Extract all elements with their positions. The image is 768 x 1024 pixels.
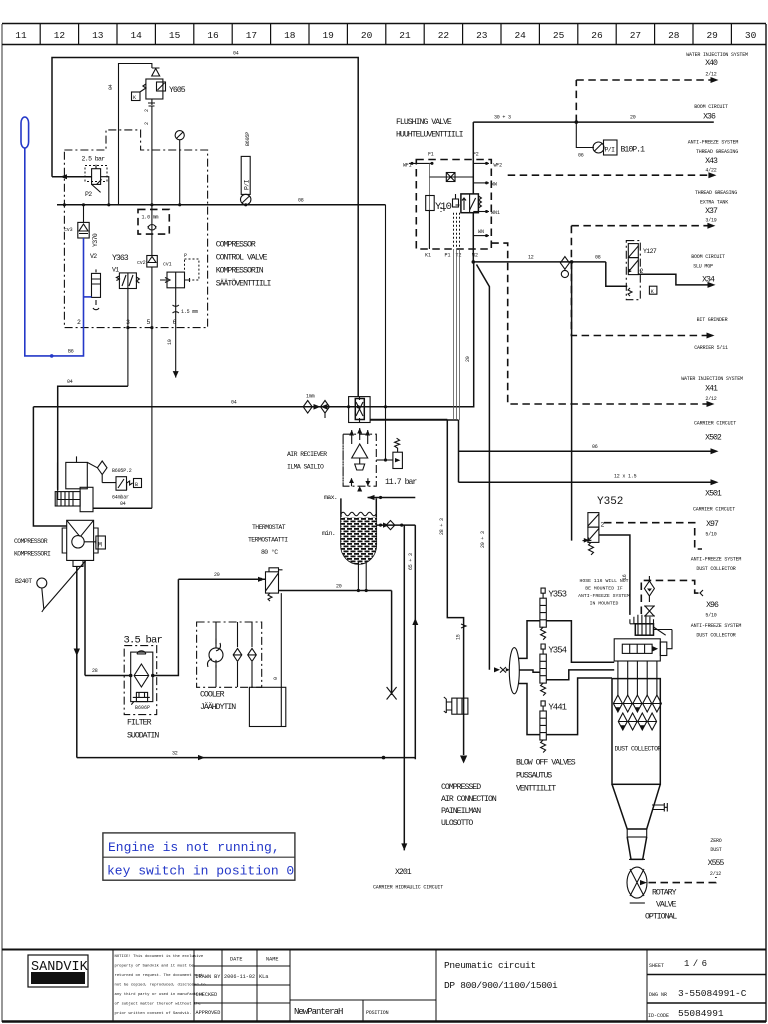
svg-text:B606P: B606P <box>135 705 150 711</box>
label boom circuit slu X34 <box>691 254 725 285</box>
svg-text:ANTI-FREEZE SYSTEM: ANTI-FREEZE SYSTEM <box>578 593 630 599</box>
wire 04 branch <box>58 386 128 490</box>
svg-text:CARRIER HIDRAULIC CIRCUIT: CARRIER HIDRAULIC CIRCUIT <box>373 885 443 891</box>
capped branch with X <box>391 591 393 695</box>
svg-text:COMPRESSOR: COMPRESSOR <box>216 241 256 250</box>
svg-text:SUODATIN: SUODATIN <box>127 732 159 741</box>
svg-text:VENTTIILIT: VENTTIILIT <box>516 785 556 794</box>
check valve cv2 <box>137 205 157 508</box>
svg-text:DUST: DUST <box>710 847 721 853</box>
svg-text:17: 17 <box>246 30 257 41</box>
thermostat out line 20 <box>279 590 392 592</box>
blue branch to V2 <box>84 296 92 298</box>
label carrier circuit X502 <box>694 421 736 443</box>
svg-text:X37: X37 <box>705 207 718 216</box>
svg-text:5/10: 5/10 <box>705 613 716 619</box>
svg-text:KOMPRESSORI: KOMPRESSORI <box>14 551 51 558</box>
svg-text:ULOSOTTO: ULOSOTTO <box>441 819 473 828</box>
blue wire down <box>25 148 84 356</box>
blue junction dot <box>50 354 54 358</box>
svg-text:any third party or used in man: any third party or used in manufacture <box>115 992 204 997</box>
wire drop to Y127 <box>606 262 628 286</box>
svg-text:DP 800/900/1100/1500i: DP 800/900/1100/1500i <box>444 980 558 991</box>
svg-text:Pneumatic circuit: Pneumatic circuit <box>444 960 536 971</box>
svg-text:28: 28 <box>92 668 98 674</box>
pilot box C2 <box>649 286 657 294</box>
filter 3.5bar <box>124 635 163 741</box>
riser to X502/X501 <box>458 420 460 482</box>
inline check 1mm orifice <box>303 394 329 419</box>
orifice 1.0 mm <box>138 209 169 234</box>
svg-text:CARRIER CIRCUIT: CARRIER CIRCUIT <box>693 507 735 513</box>
svg-text:X34: X34 <box>702 276 715 285</box>
svg-text:THREAD GREASING: THREAD GREASING <box>696 149 738 155</box>
inline lubricator on 12 line <box>560 257 569 278</box>
svg-text:30: 30 <box>745 30 757 41</box>
label compressor control valve <box>216 241 272 289</box>
Y10 left port line <box>409 162 432 164</box>
pressure transducer B605P <box>241 132 251 205</box>
compressor control valve dash-dot box <box>64 130 207 328</box>
page border left <box>1 24 3 1022</box>
svg-text:2/12: 2/12 <box>710 871 721 877</box>
air receiver inlet valve <box>349 397 371 423</box>
svg-text:DUST COLLECTOR: DUST COLLECTOR <box>615 746 662 753</box>
svg-text:23: 23 <box>476 30 488 41</box>
anti-freeze check diamond <box>644 576 655 616</box>
svg-text:property of Sandvik and it mus: property of Sandvik and it must be <box>115 964 195 969</box>
dashed W2 out to X41 <box>491 243 713 404</box>
svg-text:of subject matter thereof with: of subject matter thereof without the <box>115 1002 202 1007</box>
tank drain pipes <box>357 562 359 591</box>
svg-text:06: 06 <box>578 153 584 159</box>
svg-text:F1: F1 <box>428 152 434 158</box>
svg-text:WW: WW <box>491 182 497 188</box>
label thermostat <box>248 524 288 556</box>
svg-text:THERMOSTAT: THERMOSTAT <box>252 524 286 531</box>
svg-text:1.5 mm: 1.5 mm <box>181 309 198 315</box>
label water injection system X40 <box>686 52 748 78</box>
svg-text:04: 04 <box>67 379 73 385</box>
svg-text:64mbar: 64mbar <box>112 495 129 501</box>
sandvik logo box <box>28 955 88 987</box>
svg-text:B605P: B605P <box>245 132 251 146</box>
thermostat feed line 20 <box>178 578 265 580</box>
svg-text:min.: min. <box>322 530 335 537</box>
svg-text:32: 32 <box>172 751 178 757</box>
main line 12 to boom <box>473 261 606 263</box>
svg-text:Y10: Y10 <box>435 201 452 213</box>
svg-text:WATER INJECTION SYSTEM: WATER INJECTION SYSTEM <box>681 376 743 382</box>
svg-text:15: 15 <box>456 634 462 640</box>
svg-text:2006-11-02: 2006-11-02 <box>224 974 255 980</box>
svg-text:X501: X501 <box>705 490 722 499</box>
svg-text:ZERO: ZERO <box>710 838 721 844</box>
dashed corner X37 to carrier <box>571 226 712 336</box>
box port numbers <box>77 319 177 326</box>
svg-text:DUST COLLECTOR: DUST COLLECTOR <box>696 633 735 639</box>
Y10 valve body <box>461 194 482 213</box>
svg-text:X41: X41 <box>705 385 718 394</box>
svg-text:X502: X502 <box>705 434 722 443</box>
wire top box horizontal 04 <box>52 58 358 397</box>
unloader hatched cylinder <box>55 487 93 511</box>
svg-text:KLa: KLa <box>259 974 268 980</box>
thermostat <box>258 568 283 601</box>
svg-text:X43: X43 <box>705 157 718 166</box>
dashed riser to X40 <box>575 80 577 122</box>
svg-text:2: 2 <box>144 109 150 112</box>
wire unloader to cv2 riser 04 <box>93 507 152 509</box>
svg-text:Y127: Y127 <box>643 248 657 255</box>
svg-text:04: 04 <box>120 501 126 507</box>
svg-text:06: 06 <box>592 444 598 450</box>
svg-text:POSITION: POSITION <box>366 1010 389 1016</box>
svg-text:NAME: NAME <box>266 957 278 963</box>
svg-text:BE MOUNTED IF: BE MOUNTED IF <box>585 586 623 592</box>
svg-text:3/19: 3/19 <box>705 218 716 224</box>
svg-text:HOSE 116 WILL NOT: HOSE 116 WILL NOT <box>580 578 629 584</box>
svg-text:JÄÄHDYTIN: JÄÄHDYTIN <box>200 702 236 712</box>
svg-text:ANTI-FREEZE SYSTEM: ANTI-FREEZE SYSTEM <box>691 623 742 629</box>
svg-text:COMPRESSOR: COMPRESSOR <box>14 538 48 545</box>
svg-text:B6: B6 <box>68 349 74 355</box>
compressor block <box>62 520 105 566</box>
svg-text:BLOW OFF VALVES: BLOW OFF VALVES <box>516 759 576 768</box>
svg-text:FLUSHING VALVE: FLUSHING VALVE <box>396 118 452 127</box>
svg-text:NOTICE! This document is the e: NOTICE! This document is the exclusive <box>115 954 204 959</box>
dust collector funnel <box>612 784 660 859</box>
svg-text:20: 20 <box>361 30 373 41</box>
svg-text:KOMPRESSORIN: KOMPRESSORIN <box>216 267 264 276</box>
solenoid valve Y605 <box>140 68 186 205</box>
svg-text:WN1: WN1 <box>491 210 500 216</box>
notice text block <box>112 950 114 1022</box>
blue key symbol <box>21 117 29 148</box>
svg-text:3.5 bar: 3.5 bar <box>124 635 163 647</box>
svg-text:CARRIER 5/11: CARRIER 5/11 <box>694 345 728 351</box>
svg-text:WN: WN <box>478 229 484 235</box>
wire P2 out down <box>101 177 109 205</box>
svg-text:P: P <box>184 253 187 259</box>
svg-text:P/I: P/I <box>605 147 616 154</box>
svg-text:DATE: DATE <box>230 957 242 963</box>
svg-text:20 + 3: 20 + 3 <box>480 531 486 548</box>
cooler dashdot box <box>197 622 262 687</box>
line X36 30+3 <box>473 121 714 123</box>
pressure regulator P2 <box>82 156 108 199</box>
blow off valve Y353 <box>519 588 615 662</box>
wire blowdown to X201 <box>403 525 405 850</box>
svg-text:OPTIONAL: OPTIONAL <box>645 913 677 922</box>
NewPanteraH cell <box>290 999 436 1001</box>
svg-text:20: 20 <box>630 115 636 121</box>
svg-text:ROTARY: ROTARY <box>652 889 677 898</box>
svg-text:26: 26 <box>591 30 603 41</box>
svg-text:08: 08 <box>298 198 304 204</box>
svg-text:X555: X555 <box>708 859 725 868</box>
bottom line 32 <box>77 757 416 759</box>
svg-text:THREAD GREASING: THREAD GREASING <box>695 190 737 196</box>
dust collector body <box>612 661 661 784</box>
svg-text:04: 04 <box>108 84 114 90</box>
svg-text:WATER INJECTION SYSTEM: WATER INJECTION SYSTEM <box>686 52 748 58</box>
svg-text:P/I: P/I <box>244 179 251 190</box>
svg-text:NewPanteraH: NewPanteraH <box>294 1007 343 1017</box>
note hose 116 <box>578 578 630 607</box>
compressor drain to 32 line <box>76 566 78 757</box>
dashed line X40 <box>576 79 716 81</box>
svg-text:65 + 3: 65 + 3 <box>408 553 414 570</box>
svg-text:COOLER: COOLER <box>200 691 225 700</box>
svg-text:2: 2 <box>144 122 150 125</box>
filter inlet 28 <box>85 675 131 677</box>
receiver body dashdot <box>343 428 376 492</box>
svg-text:BIT GRINDER: BIT GRINDER <box>697 317 728 323</box>
line X501 <box>459 481 716 483</box>
dashed Y352 to X97 <box>604 523 702 549</box>
dust collector header <box>614 630 672 662</box>
svg-text:27: 27 <box>630 30 641 41</box>
rotary valve <box>627 867 647 903</box>
svg-text:15: 15 <box>169 30 181 41</box>
svg-text:IN MOUNTED: IN MOUNTED <box>590 601 619 607</box>
svg-text:12 x 1.5: 12 x 1.5 <box>614 474 637 480</box>
label blow off valves <box>516 759 576 794</box>
drawn/checked/approved table <box>221 950 223 1022</box>
svg-text:DUST COLLECTOR: DUST COLLECTOR <box>696 566 735 572</box>
svg-text:22: 22 <box>438 30 450 41</box>
svg-text:PAINEILMAN: PAINEILMAN <box>441 807 481 816</box>
svg-text:X97: X97 <box>706 520 719 529</box>
svg-text:28 + 3: 28 + 3 <box>439 518 445 535</box>
label compressed air connection <box>441 783 497 828</box>
svg-text:key switch in position 0: key switch in position 0 <box>107 864 294 879</box>
cooler lower box <box>249 687 285 726</box>
svg-text:V1: V1 <box>112 267 119 274</box>
svg-text:3-55084991-C: 3-55084991-C <box>678 988 747 999</box>
svg-text:X40: X40 <box>705 59 718 68</box>
svg-text:Y441: Y441 <box>548 703 566 713</box>
wire 32 return riser <box>414 525 416 759</box>
hose lines P1 T2 down <box>454 249 460 420</box>
svg-text:Engine is not running,: Engine is not running, <box>108 840 280 855</box>
svg-text:SÄÄTÖVENTTIILI: SÄÄTÖVENTTIILI <box>216 278 272 289</box>
svg-text:HUUHTELUVENTTIILI: HUUHTELUVENTTIILI <box>396 131 464 140</box>
pilot box C <box>132 92 141 101</box>
svg-text:5/10: 5/10 <box>705 532 716 538</box>
svg-text:18: 18 <box>284 30 296 41</box>
svg-text:ID-CODE: ID-CODE <box>648 1013 669 1019</box>
svg-text:X201: X201 <box>395 868 412 877</box>
svg-text:B10P.1: B10P.1 <box>621 146 646 155</box>
svg-text:X36: X36 <box>703 113 716 122</box>
flushing valve Y10 dashed box <box>416 160 491 250</box>
wire top inner horizontal <box>119 64 152 205</box>
dashed to X555 <box>649 877 716 883</box>
svg-text:COMPRESSED: COMPRESSED <box>441 783 481 792</box>
svg-text:SHEET: SHEET <box>649 963 664 969</box>
ruler strip <box>2 24 766 45</box>
svg-text:Y353: Y353 <box>548 590 566 600</box>
svg-text:cv3: cv3 <box>64 227 73 233</box>
relief valve 11.7bar <box>376 438 417 504</box>
label anti-freeze thread greasing X43 <box>688 140 739 174</box>
svg-text:12: 12 <box>528 255 534 261</box>
svg-text:80 °C: 80 °C <box>261 548 278 556</box>
blow off valve Y441 <box>519 678 613 753</box>
svg-text:V2: V2 <box>90 253 97 260</box>
blow off manifold input <box>494 648 519 694</box>
svg-text:1.0 mm: 1.0 mm <box>142 215 159 221</box>
svg-text:SLU MGP: SLU MGP <box>693 264 713 270</box>
svg-text:4/22: 4/22 <box>705 168 716 174</box>
junction to Y352 riser <box>570 260 574 264</box>
wire left drop to compressor <box>33 407 66 526</box>
compressed air connection drop <box>370 419 447 421</box>
svg-text:30 + 3: 30 + 3 <box>494 115 511 121</box>
main title cell <box>435 950 437 1022</box>
svg-text:20: 20 <box>465 356 471 362</box>
wire Y127 out to X34 <box>638 274 712 285</box>
svg-text:29: 29 <box>706 30 718 41</box>
svg-text:19: 19 <box>322 30 334 41</box>
svg-text:K: K <box>651 289 654 295</box>
Y10 ports top labels <box>403 152 502 169</box>
wire P2 feed <box>52 176 92 178</box>
wire drop to relief <box>385 205 387 460</box>
svg-text:14: 14 <box>130 30 142 41</box>
label rotary valve <box>645 889 677 922</box>
Y10 right side ports <box>473 162 500 237</box>
svg-text:CONTROL VALVE: CONTROL VALVE <box>216 254 268 263</box>
svg-text:Y605: Y605 <box>169 86 186 95</box>
svg-text:2/12: 2/12 <box>705 72 716 78</box>
svg-text:P1: P1 <box>445 253 451 259</box>
svg-text:1 / 6: 1 / 6 <box>684 959 707 969</box>
svg-text:13: 13 <box>92 30 104 41</box>
dashed X96 path <box>641 580 700 614</box>
filter outlet to riser <box>153 579 179 675</box>
svg-text:CHECKED: CHECKED <box>196 992 218 998</box>
dashed line X43 <box>508 174 714 176</box>
svg-text:B: B <box>135 482 138 488</box>
svg-text:B605P.2: B605P.2 <box>112 468 132 474</box>
cylinder V2 <box>90 253 101 310</box>
svg-text:08: 08 <box>595 255 601 261</box>
svg-text:returned on request. The docum: returned on request. The document must <box>115 973 204 978</box>
heater element <box>635 624 672 635</box>
svg-text:25: 25 <box>553 30 565 41</box>
svg-text:Y370: Y370 <box>92 233 99 247</box>
Y10 main riser F2/W2 <box>472 122 474 194</box>
svg-text:VALVE: VALVE <box>656 901 677 910</box>
svg-text:TERMOSTAATTI: TERMOSTAATTI <box>248 537 288 544</box>
transducer B10P.1 <box>576 122 645 158</box>
title block <box>2 950 766 1022</box>
svg-text:28: 28 <box>668 30 680 41</box>
blue note box <box>103 833 295 880</box>
svg-text:APPROVED: APPROVED <box>196 1010 221 1016</box>
junction dots main <box>347 405 387 461</box>
svg-text:Y352: Y352 <box>597 496 623 508</box>
svg-text:Y354: Y354 <box>548 646 566 656</box>
receiver outlet line to riser <box>370 419 458 421</box>
svg-text:20: 20 <box>336 584 342 590</box>
main line 08 <box>57 204 386 206</box>
compressor unloader assembly <box>58 456 142 500</box>
svg-text:ILMA SAILIO: ILMA SAILIO <box>287 464 324 471</box>
check valve cv1 <box>160 253 199 288</box>
anti-freeze fins <box>630 615 654 624</box>
valve Y352 <box>583 496 624 555</box>
svg-text:DRAWN BY: DRAWN BY <box>196 974 222 980</box>
Y10 pilot dashed drops <box>441 207 460 249</box>
label water injection X41 <box>681 376 743 402</box>
svg-text:04: 04 <box>231 400 237 406</box>
wet tank body <box>322 498 376 564</box>
svg-text:DWG NR: DWG NR <box>649 992 667 998</box>
svg-text:10: 10 <box>167 339 173 345</box>
page border right <box>765 24 767 1022</box>
main supply line 04 <box>33 262 473 406</box>
svg-text:BOOM CIRCUIT: BOOM CIRCUIT <box>691 254 725 260</box>
svg-text:prior written consent of Sandv: prior written consent of Sandvik. <box>115 1011 192 1016</box>
svg-text:16: 16 <box>207 30 219 41</box>
svg-text:max.: max. <box>324 494 337 501</box>
svg-text:not be copied, reproduced, dis: not be copied, reproduced, disclosed to <box>115 983 207 988</box>
right info column <box>646 950 648 1022</box>
svg-text:WF2: WF2 <box>494 163 503 169</box>
svg-text:55084991: 55084991 <box>678 1008 724 1019</box>
wire Y352 out heater <box>599 535 630 615</box>
pressure gauge <box>175 131 184 205</box>
svg-text:K1: K1 <box>425 253 431 259</box>
quick coupler <box>444 697 468 714</box>
solenoid valve Y363 <box>112 254 139 289</box>
sensor B240T <box>15 560 86 612</box>
svg-text:P2: P2 <box>85 191 92 198</box>
svg-text:04: 04 <box>233 51 239 57</box>
svg-text:PUSSAUTUS: PUSSAUTUS <box>516 772 552 781</box>
svg-text:FILTER: FILTER <box>127 719 152 728</box>
svg-text:ANTI-FREEZE SYSTEM: ANTI-FREEZE SYSTEM <box>691 557 742 563</box>
check valve cv3 <box>64 205 89 238</box>
svg-text:AIR RECIEVER: AIR RECIEVER <box>287 451 327 458</box>
Y10 internal orifice line <box>429 163 473 249</box>
svg-text:X96: X96 <box>706 601 719 610</box>
svg-text:2/12: 2/12 <box>705 396 716 402</box>
svg-text:CARRIER CIRCUIT: CARRIER CIRCUIT <box>694 421 736 427</box>
svg-text:2.5 bar: 2.5 bar <box>82 156 106 163</box>
diagonal branch down <box>477 265 490 670</box>
compressor drain to filter <box>84 560 86 675</box>
junction dots <box>63 203 247 329</box>
thermostat bypass drop <box>280 593 282 726</box>
svg-text:K: K <box>133 95 136 101</box>
Y10 solenoid <box>426 194 460 213</box>
svg-text:cv2: cv2 <box>137 260 146 266</box>
svg-text:20: 20 <box>214 572 220 578</box>
svg-text:11: 11 <box>15 30 27 41</box>
svg-text:AIR CONNECTION: AIR CONNECTION <box>441 795 497 804</box>
Y10 bottom port labels <box>425 253 478 259</box>
funnel side pipe <box>652 803 667 812</box>
svg-text:cv1: cv1 <box>163 262 172 268</box>
svg-text:BOOM CIRCUIT: BOOM CIRCUIT <box>694 104 728 110</box>
valve Y127 <box>626 241 657 300</box>
dashed line X37 <box>571 225 712 227</box>
